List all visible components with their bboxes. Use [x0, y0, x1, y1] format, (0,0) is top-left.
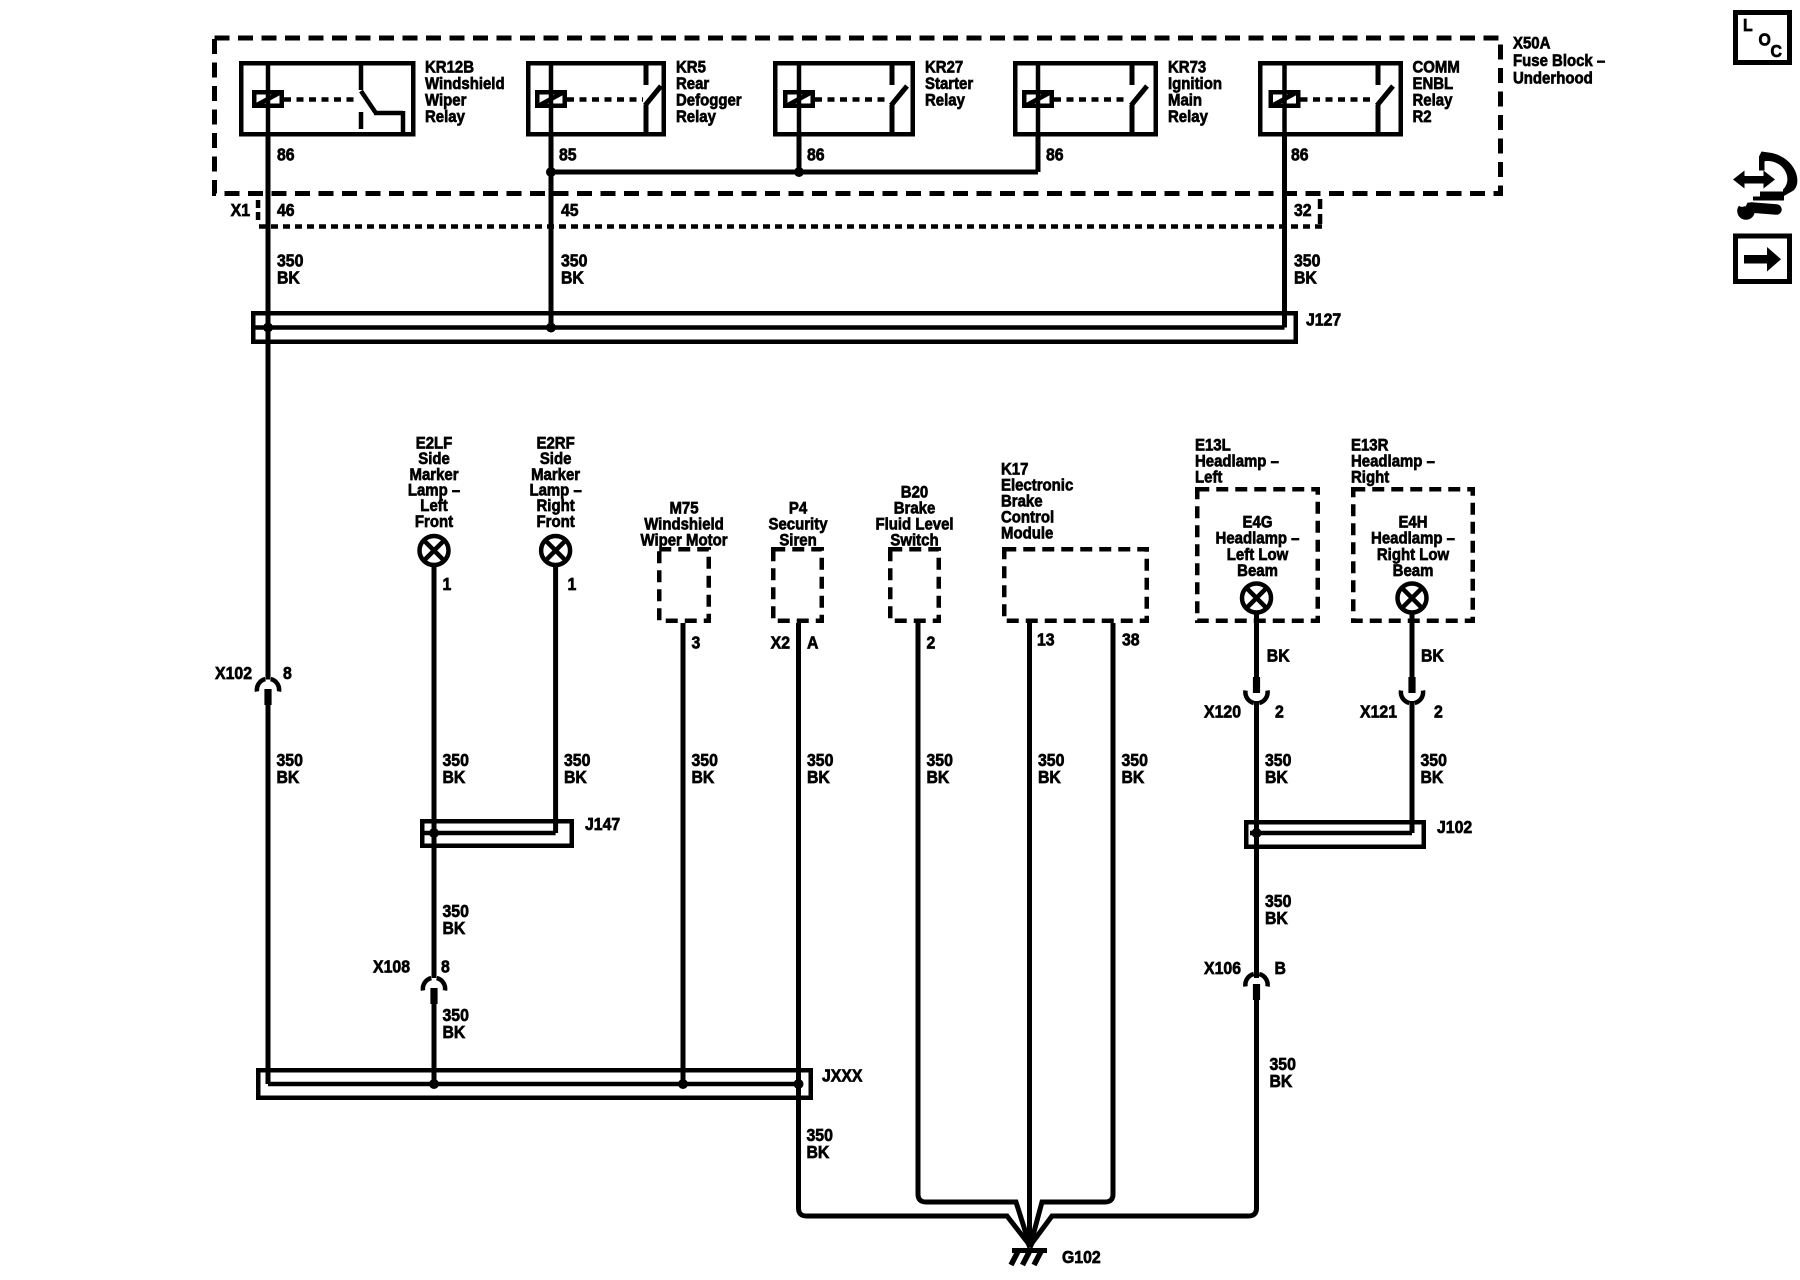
svg-text:KR12B: KR12B — [425, 59, 474, 77]
svg-text:1: 1 — [568, 574, 577, 594]
svg-text:COMM: COMM — [1413, 59, 1460, 77]
svg-text:Ignition: Ignition — [1168, 75, 1222, 93]
svg-text:Switch: Switch — [890, 532, 938, 550]
svg-text:BK: BK — [564, 767, 588, 787]
svg-text:B: B — [1275, 958, 1286, 978]
svg-text:Underhood: Underhood — [1513, 70, 1593, 88]
svg-text:KR27: KR27 — [925, 59, 963, 77]
svg-text:Front: Front — [537, 513, 576, 531]
svg-text:O: O — [1759, 30, 1771, 50]
svg-text:86: 86 — [277, 145, 295, 165]
svg-text:8: 8 — [283, 663, 292, 683]
svg-text:X2: X2 — [771, 633, 790, 653]
svg-text:J127: J127 — [1306, 310, 1341, 330]
svg-text:J102: J102 — [1437, 817, 1472, 837]
svg-text:J147: J147 — [585, 814, 620, 834]
svg-text:2: 2 — [927, 633, 936, 653]
svg-text:ENBL: ENBL — [1413, 75, 1454, 93]
svg-text:X102: X102 — [215, 663, 252, 683]
svg-text:1: 1 — [443, 574, 452, 594]
svg-text:Main: Main — [1168, 92, 1202, 110]
svg-text:86: 86 — [807, 145, 825, 165]
svg-text:Rear: Rear — [676, 75, 709, 93]
svg-text:8: 8 — [441, 957, 450, 977]
svg-text:G102: G102 — [1062, 1247, 1101, 1267]
svg-text:Wiper Motor: Wiper Motor — [640, 532, 727, 550]
svg-text:R2: R2 — [1413, 108, 1432, 126]
svg-text:85: 85 — [559, 145, 577, 165]
svg-text:BK: BK — [561, 268, 585, 288]
svg-text:X50A: X50A — [1513, 35, 1551, 53]
svg-text:Module: Module — [1001, 525, 1053, 543]
svg-text:X106: X106 — [1204, 958, 1241, 978]
svg-text:X120: X120 — [1204, 702, 1241, 722]
svg-text:Beam: Beam — [1237, 562, 1278, 580]
svg-text:86: 86 — [1291, 145, 1309, 165]
svg-text:Beam: Beam — [1393, 562, 1434, 580]
svg-text:BK: BK — [1122, 767, 1146, 787]
svg-text:BK: BK — [443, 1022, 467, 1042]
svg-text:BK: BK — [1421, 767, 1445, 787]
svg-text:BK: BK — [1265, 908, 1289, 928]
svg-text:BK: BK — [807, 1142, 831, 1162]
svg-text:Starter: Starter — [925, 75, 973, 93]
svg-text:C: C — [1771, 41, 1782, 61]
svg-text:Relay: Relay — [1168, 108, 1208, 126]
svg-text:Right: Right — [1351, 469, 1390, 487]
svg-text:Relay: Relay — [676, 108, 716, 126]
svg-text:3: 3 — [692, 633, 701, 653]
svg-text:86: 86 — [1046, 145, 1064, 165]
svg-text:BK: BK — [1038, 767, 1062, 787]
svg-text:BK: BK — [1294, 268, 1318, 288]
svg-text:BK: BK — [277, 767, 301, 787]
svg-text:13: 13 — [1037, 630, 1055, 650]
svg-text:X121: X121 — [1360, 702, 1397, 722]
svg-text:46: 46 — [277, 200, 295, 220]
svg-text:Wiper: Wiper — [425, 92, 466, 110]
svg-text:X1: X1 — [231, 200, 250, 220]
svg-text:JXXX: JXXX — [822, 1066, 863, 1086]
svg-text:Defogger: Defogger — [676, 92, 742, 110]
svg-text:BK: BK — [277, 268, 301, 288]
svg-text:KR73: KR73 — [1168, 59, 1206, 77]
svg-text:Relay: Relay — [925, 92, 965, 110]
svg-text:2: 2 — [1434, 702, 1443, 722]
svg-text:BK: BK — [1270, 1071, 1294, 1091]
svg-text:Relay: Relay — [1413, 92, 1453, 110]
svg-text:BK: BK — [1421, 646, 1445, 666]
svg-text:Front: Front — [415, 513, 454, 531]
svg-text:Left: Left — [1195, 469, 1223, 487]
svg-text:A: A — [807, 633, 818, 653]
svg-text:BK: BK — [807, 767, 831, 787]
svg-text:KR5: KR5 — [676, 59, 706, 77]
svg-text:32: 32 — [1294, 200, 1312, 220]
svg-text:Fuse Block –: Fuse Block – — [1513, 52, 1605, 70]
svg-text:Siren: Siren — [779, 532, 816, 550]
svg-text:45: 45 — [561, 200, 579, 220]
svg-text:BK: BK — [692, 767, 716, 787]
svg-text:BK: BK — [1265, 767, 1289, 787]
svg-text:X108: X108 — [373, 957, 410, 977]
svg-text:BK: BK — [443, 767, 467, 787]
svg-text:BK: BK — [927, 767, 951, 787]
svg-text:Relay: Relay — [425, 108, 465, 126]
svg-text:38: 38 — [1122, 630, 1140, 650]
svg-text:2: 2 — [1275, 702, 1284, 722]
svg-text:BK: BK — [1267, 646, 1291, 666]
svg-text:Windshield: Windshield — [425, 75, 505, 93]
svg-text:L: L — [1743, 15, 1753, 35]
svg-text:BK: BK — [443, 918, 467, 938]
